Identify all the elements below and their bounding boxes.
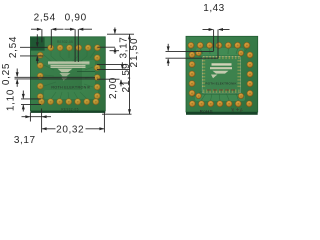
right PCB Roth logo bars <box>210 63 232 78</box>
dimension 2,00 arrowheads <box>120 64 124 84</box>
dimension 1,10 arrowheads <box>22 94 25 110</box>
left PCB pad holes <box>39 47 98 103</box>
dimension 2,54 top lines <box>31 29 64 48</box>
svg-text:ROTH ELEKTRONIK: ROTH ELEKTRONIK <box>51 86 91 90</box>
dimension 0,25 lines <box>15 69 96 87</box>
right PCB bottom side edge <box>186 112 258 115</box>
dimension 3,17 right lines <box>97 28 134 55</box>
dimension 3,17 right arrowheads <box>113 29 116 52</box>
svg-text:RE932-05: RE932-05 <box>61 108 79 112</box>
left PCB trace to right column <box>77 71 95 73</box>
left PCB trace fan <box>44 51 95 99</box>
dimension 20,32 label <box>56 124 86 134</box>
right PCB board face <box>186 36 258 112</box>
dimension 2,54 left lines <box>20 34 48 63</box>
right PCB pad holes <box>190 44 251 104</box>
left PCB Roth logo bars <box>48 62 90 81</box>
right PCB footprint lighter zone <box>203 57 240 92</box>
dimension 20,32 lines <box>42 112 105 133</box>
unlabeled gap dimension between boards <box>166 44 219 66</box>
svg-text:1,43: 1,43 <box>203 3 224 14</box>
svg-text:RE932-05: RE932-05 <box>57 40 73 44</box>
svg-text:0,90: 0,90 <box>65 12 87 23</box>
left PCB pads top row <box>48 45 101 51</box>
dimension 0,90 lines <box>65 29 93 62</box>
right PCB pads right column <box>247 52 253 97</box>
svg-text:2,54: 2,54 <box>34 12 56 23</box>
svg-text:20,32: 20,32 <box>56 124 84 135</box>
right PCB silkscreen footprint outline <box>202 57 241 94</box>
left PCB pads left column <box>37 52 43 99</box>
left PCB copper mottling <box>44 60 98 99</box>
right PCB SMD footprint rows <box>202 56 240 92</box>
left PCB dark corner square <box>31 37 45 50</box>
gap dimension arrowheads <box>167 46 170 63</box>
dimension 3,17 bottom lines <box>22 109 52 133</box>
dimension 0,25 arrowheads <box>16 72 19 84</box>
dimension 1,43 lines <box>203 30 230 59</box>
right PCB trace stubs <box>191 49 247 100</box>
left PCB bottom side edge <box>30 111 105 113</box>
svg-text:2,54: 2,54 <box>8 36 19 58</box>
svg-text:ROTH ELEKTRONIK: ROTH ELEKTRONIK <box>205 81 236 85</box>
dimension 3,17 bottom arrowheads <box>25 115 46 118</box>
right PCB inner corner pads <box>196 50 244 98</box>
svg-text:0,25: 0,25 <box>1 63 12 85</box>
svg-text:3,17: 3,17 <box>118 37 129 59</box>
svg-text:2,00: 2,00 <box>108 77 119 99</box>
dimension 2,54 left arrowheads <box>36 42 39 61</box>
svg-text:3,17: 3,17 <box>14 135 36 146</box>
right PCB pads left column <box>189 52 195 97</box>
right PCB mottling <box>195 48 245 101</box>
dimension 20,32 arrowheads <box>42 127 105 130</box>
dimension 2,54 top arrowheads <box>37 28 56 31</box>
dimension 2,00 lines <box>97 62 130 86</box>
right PCB handwritten mark <box>232 108 243 112</box>
dimension 1,10 lines <box>21 91 41 112</box>
dimension 21,59 line <box>102 34 132 114</box>
svg-text:RoHS: RoHS <box>200 109 213 114</box>
right PCB pads top row <box>188 42 250 48</box>
dimension 1,43 arrowheads <box>209 28 223 31</box>
left PCB pads bottom row <box>38 99 98 105</box>
svg-text:21,50: 21,50 <box>129 37 140 67</box>
right PCB red part number text <box>207 89 235 90</box>
dimension 21,59 arrowheads <box>128 34 131 114</box>
svg-text:1,10: 1,10 <box>6 89 17 111</box>
left PCB pads right column <box>94 55 100 99</box>
dimension 0,90 arrowheads <box>70 28 83 31</box>
right PCB pads bottom row <box>189 101 252 107</box>
left PCB board face <box>30 37 105 111</box>
